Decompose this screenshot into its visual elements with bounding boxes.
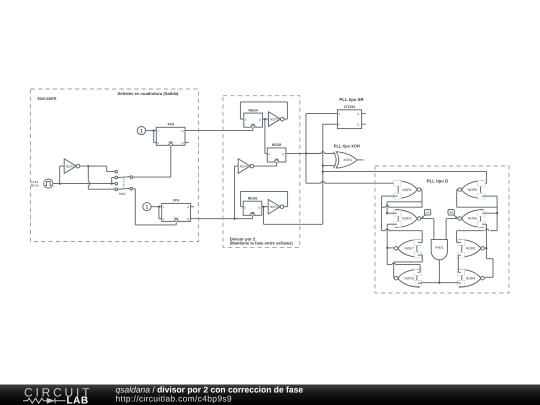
svg-text:NOR3: NOR3 xyxy=(466,247,476,251)
flag QA xyxy=(421,209,430,218)
wire hop 1a xyxy=(385,206,388,208)
svg-text:D: D xyxy=(244,207,246,210)
switch SW1 xyxy=(115,170,133,196)
wire FF9 Q output xyxy=(185,127,253,130)
svg-text:NOT5: NOT5 xyxy=(240,164,249,168)
wire NOR7 out bus xyxy=(386,224,388,264)
svg-text:NOR9: NOR9 xyxy=(404,276,414,280)
wire NOR3 output stub xyxy=(484,247,486,249)
wire bus to NOR4 loop xyxy=(485,259,493,278)
svg-text:AND1: AND1 xyxy=(435,246,444,250)
svg-text:1: 1 xyxy=(146,205,149,211)
wire to NOR2 top input xyxy=(387,202,397,213)
logic high source 1 (FF5) xyxy=(143,203,151,211)
wire NOR3 bot to NOR4 top xyxy=(458,255,461,272)
and gate AND1 xyxy=(431,240,447,260)
wire NOR2 bottom input xyxy=(387,223,397,225)
svg-text:CLK: CLK xyxy=(274,159,279,162)
wire NOT5 to REG8 CLK xyxy=(253,162,276,166)
wire NOR7 output stub xyxy=(387,247,394,249)
nor gate NOR3 xyxy=(457,239,484,258)
svg-text:Señales en cuadratura (Salida): Señales en cuadratura (Salida) xyxy=(118,91,180,96)
svg-text:QB: QB xyxy=(449,211,453,215)
junction NOR6 top xyxy=(496,212,498,214)
wire cross connect 1 xyxy=(382,206,422,208)
d flip-flop REG8 xyxy=(267,143,286,162)
logo resistor diode glyph xyxy=(23,398,66,403)
flag QB xyxy=(448,209,457,218)
flip-flop FF9 xyxy=(156,122,185,145)
svg-text:Q: Q xyxy=(187,206,189,209)
svg-text:K: K xyxy=(163,218,165,221)
junction REG4 Q xyxy=(264,118,266,120)
wire NOR5 bottom input xyxy=(482,195,497,197)
svg-text:D: D xyxy=(268,153,270,156)
nor gate NOR1 xyxy=(394,180,421,199)
wire CLK1 output xyxy=(53,183,115,185)
d flip-flop REG6 xyxy=(243,197,262,216)
wire feedback vertical left 1 xyxy=(381,196,383,231)
svg-text:REG6: REG6 xyxy=(248,197,258,201)
svg-text:CLK: CLK xyxy=(251,124,256,127)
svg-text:QA: QA xyxy=(426,211,430,215)
wire B to NOT5 input xyxy=(235,166,239,219)
svg-text:1: 1 xyxy=(140,129,143,135)
logic high source 1 (FF9) xyxy=(137,127,145,135)
svg-text:Q: Q xyxy=(258,207,260,210)
flip-flop FF5 xyxy=(162,199,191,222)
svg-text:(Mantiene la fase entre señale: (Mantiene la fase entre señales) xyxy=(230,241,294,246)
svg-text:Q: Q xyxy=(259,118,261,121)
wire 1 to FF9 J/K xyxy=(146,131,157,143)
junction CLK1 branch xyxy=(59,182,61,184)
wire NOT4 feedback to REG6 D xyxy=(241,191,288,206)
junction REG6 Q xyxy=(262,206,264,208)
svg-text:Q: Q xyxy=(182,130,184,133)
junction CLK to upper pole xyxy=(111,182,113,184)
svg-text:NOR6: NOR6 xyxy=(468,217,478,221)
wire A down to NOR1 bus xyxy=(306,153,398,183)
svg-text:SW1: SW1 xyxy=(119,192,126,196)
wire AND1 output xyxy=(438,260,440,283)
wire right outer rail xyxy=(496,196,498,231)
wire REG6 Q down to bus xyxy=(264,207,323,225)
svg-text:NOR5: NOR5 xyxy=(468,188,478,192)
junction NOR3 output xyxy=(485,247,487,249)
wire SW1 to FF9 CLK xyxy=(133,145,171,177)
divisor por 2 dashed box xyxy=(223,96,300,248)
svg-text:PLL tipo D: PLL tipo D xyxy=(427,178,448,183)
junction FF5 Qb branch xyxy=(233,218,235,220)
svg-text:REG4: REG4 xyxy=(248,108,258,112)
svg-text:FF9: FF9 xyxy=(168,122,174,126)
svg-text:NOR4: NOR4 xyxy=(466,276,476,280)
wire FF5 Qb output xyxy=(190,215,252,218)
wire NOR6 bus down xyxy=(485,224,487,259)
wire NOT2 out to upper throw xyxy=(107,166,115,172)
wire hop over CLK wire xyxy=(88,182,90,185)
wire XOR1 top input xyxy=(306,152,321,154)
wire REG4 Q to REG8 D xyxy=(265,119,267,153)
svg-text:Q: Q xyxy=(282,153,284,156)
svg-text:R: R xyxy=(339,124,341,127)
not gate NOT2 xyxy=(64,159,80,174)
junction NOR7 output xyxy=(386,247,388,249)
wire CLK to upper throw xyxy=(112,178,115,184)
wire bus to NOR9 top xyxy=(387,265,420,273)
svg-text:Q: Q xyxy=(182,142,184,145)
wire NOR9 out to NOR7 bot xyxy=(394,255,423,278)
svg-text:50 Hz: 50 Hz xyxy=(31,184,40,188)
wire FF5 Q stub xyxy=(190,206,194,208)
svg-text:http://circuitlab.com/c4bp9s9: http://circuitlab.com/c4bp9s9 xyxy=(116,393,232,403)
junction B to NOR5 bus xyxy=(322,170,324,172)
svg-text:CLK: CLK xyxy=(250,212,255,215)
svg-text:PLL tipo XOR: PLL tipo XOR xyxy=(334,143,360,148)
wire to NOT2 input xyxy=(60,166,64,184)
svg-text:Q: Q xyxy=(357,113,359,116)
svg-text:PLL tipo SR: PLL tipo SR xyxy=(339,97,364,102)
junction NOR2 top xyxy=(386,212,388,214)
wire FF9 Qb stub xyxy=(185,142,189,144)
wire NOR9 bottom input xyxy=(418,282,421,285)
svg-text:LTCH1: LTCH1 xyxy=(344,105,355,109)
wire XOR1 bottom input xyxy=(323,165,335,167)
wire NOT2 out to lower throw xyxy=(88,166,115,189)
wire B bus to NOR5 xyxy=(323,172,487,184)
svg-text:CLK: CLK xyxy=(174,217,179,220)
wire rail to NOR3 top xyxy=(457,231,498,243)
junction REG8 Q node xyxy=(305,152,307,154)
wire NOR2bot to NOR7top xyxy=(382,231,423,243)
wire NOT2 output xyxy=(79,165,107,167)
wire XOR1 output stub xyxy=(357,159,363,161)
not gate NOT5 xyxy=(238,159,254,174)
wire NOR6 bottom input xyxy=(482,223,486,225)
d flip-flop REG4 xyxy=(244,108,263,127)
junction NOT2 output branch xyxy=(87,165,89,167)
svg-text:ENCODER: ENCODER xyxy=(38,97,57,101)
wire REG8 Q output xyxy=(286,152,335,154)
nor gate NOR4 xyxy=(457,269,484,287)
svg-text:S: S xyxy=(339,113,341,116)
wire B bus vertical xyxy=(323,124,338,224)
nor gate NOR5 xyxy=(458,181,485,200)
wire hop REG8Q over vertical xyxy=(321,152,324,154)
svg-text:XOR1: XOR1 xyxy=(343,158,352,162)
wire NOT3 feedback to REG4 D xyxy=(240,102,287,119)
svg-text:REG8: REG8 xyxy=(272,143,282,147)
wire SW1 to FF5 CLK xyxy=(133,189,177,225)
wire NOR1 bottom input xyxy=(382,195,398,197)
svg-text:NOR7: NOR7 xyxy=(404,247,414,251)
svg-text:Q: Q xyxy=(187,218,189,221)
wire hop bus over vertical xyxy=(321,181,324,183)
svg-text:NOR1: NOR1 xyxy=(402,188,412,192)
wire NOR6 top input xyxy=(482,212,497,214)
svg-text:CLK: CLK xyxy=(168,141,173,144)
encoder dashed box xyxy=(31,89,199,242)
svg-text:Q: Q xyxy=(357,124,359,127)
svg-text:D: D xyxy=(245,118,247,121)
svg-text:LAB: LAB xyxy=(67,395,89,405)
not gate NOT3 xyxy=(269,112,285,127)
wire A to LTCH1 S xyxy=(306,114,337,154)
wire right cross connect xyxy=(457,206,497,208)
wire NOR1 output return xyxy=(387,190,422,208)
nor gate NOR9 xyxy=(394,269,421,287)
junction FF9 JK xyxy=(153,129,155,131)
not gate NOT4 xyxy=(268,199,284,214)
svg-text:NOT4: NOT4 xyxy=(270,205,279,209)
nor gate NOR7 xyxy=(394,239,421,258)
wire REG6 Q to NOT4 xyxy=(262,206,268,208)
svg-text:NOR2: NOR2 xyxy=(402,217,412,221)
wire NOR2 output to AND1 xyxy=(421,219,434,240)
sr latch LTCH1 xyxy=(337,110,361,129)
wire bottom rail xyxy=(421,282,459,284)
svg-text:NOT2: NOT2 xyxy=(66,164,75,168)
wire 1 to FF5 J/K xyxy=(151,207,162,219)
wire LTCH1 Qb stub xyxy=(362,123,366,125)
junction FF5 JK xyxy=(158,206,160,208)
wire hop right a xyxy=(485,229,488,231)
wire NOR6 output to AND1 xyxy=(446,219,458,240)
wire REG4 Q to NOT3 xyxy=(262,118,268,120)
wire hop 7b xyxy=(386,229,389,231)
nor gate NOR6 xyxy=(458,210,485,228)
xor gate XOR1 xyxy=(334,152,358,168)
junction B to XOR xyxy=(322,164,324,166)
wire NOR5 output return xyxy=(457,190,459,208)
wire NOR4 bottom input xyxy=(459,282,461,285)
svg-text:NOT3: NOT3 xyxy=(270,117,279,121)
wire hop 9c xyxy=(392,263,395,265)
clock source CLK1 xyxy=(44,179,53,188)
wire LTCH1 Q stub xyxy=(362,113,366,115)
pll tipo D dashed box xyxy=(375,166,509,293)
svg-text:K: K xyxy=(157,142,159,145)
junction AND1 out xyxy=(438,282,440,284)
svg-text:FF5: FF5 xyxy=(173,199,179,203)
nor gate NOR2 xyxy=(394,210,421,228)
